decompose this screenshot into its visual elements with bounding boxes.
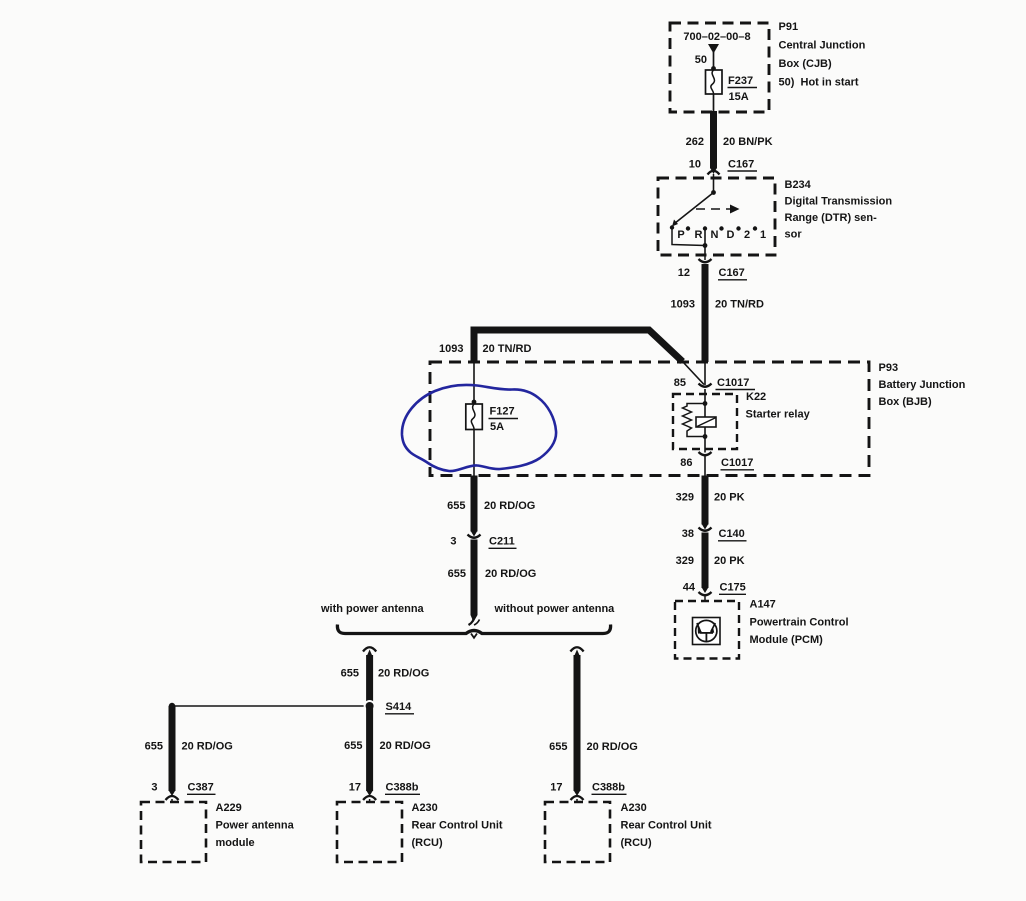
svg-text:C175: C175: [720, 582, 746, 594]
svg-text:Rear Control Unit: Rear Control Unit: [621, 820, 712, 832]
option label without power antenna: [494, 603, 616, 615]
connector symbol C388b middle: [363, 796, 376, 802]
wire left branch 655: [169, 706, 175, 796]
svg-text:R: R: [695, 229, 703, 241]
svg-text:44: 44: [683, 582, 696, 594]
wire labels 1093 / 20 TN/RD left: [439, 343, 531, 355]
svg-text:3: 3: [450, 536, 456, 548]
connector C211 label: [489, 536, 517, 549]
svg-text:17: 17: [550, 782, 562, 794]
node dot left splice end: [169, 703, 175, 709]
A230 text labels right: [621, 802, 712, 849]
component box A230 Rear Control Unit right: [545, 802, 610, 862]
gear position letters P R N D 2 1: [677, 229, 766, 241]
svg-text:655: 655: [447, 500, 465, 512]
annotation blue circle around F127: [402, 385, 556, 471]
pin 12 label: [678, 267, 690, 279]
wire fuse to BJB bottom: [473, 430, 475, 476]
svg-text:sor: sor: [785, 229, 803, 241]
svg-text:Starter relay: Starter relay: [746, 409, 811, 421]
pin 17 label right: [550, 782, 562, 794]
svg-text:Box (CJB): Box (CJB): [779, 58, 833, 70]
svg-text:85: 85: [674, 377, 686, 389]
component box A147 PCM: [675, 601, 739, 659]
value label F127 / 5A: [489, 406, 519, 434]
pin 86 label: [680, 457, 692, 469]
wire entry into B234: [713, 178, 715, 193]
node junction dot at fuse top: [711, 66, 716, 71]
svg-text:Box (BJB): Box (BJB): [879, 396, 933, 408]
svg-text:A230: A230: [621, 802, 647, 814]
svg-text:module: module: [216, 837, 255, 849]
wire 329 20 PK upper: [702, 476, 708, 530]
pin 3 label: [450, 536, 456, 548]
svg-text:B234: B234: [785, 179, 812, 191]
motion dashed arrow: [696, 205, 740, 214]
wire 655 to option bracket: [469, 540, 480, 626]
wire 262 20 BN/PK: [711, 111, 717, 174]
svg-text:K22: K22: [746, 391, 766, 403]
contact dot D-2: [736, 226, 740, 230]
contact dot 2-1: [753, 226, 757, 230]
connector C388b label middle: [385, 782, 420, 795]
svg-text:20 TN/RD: 20 TN/RD: [715, 299, 764, 311]
fuse F237 15A: [706, 70, 723, 94]
component box A229 Power antenna module: [141, 802, 206, 862]
svg-text:C167: C167: [728, 158, 754, 170]
wire 329 20 PK lower: [702, 533, 708, 594]
PCM icon: [693, 618, 721, 645]
svg-text:F237: F237: [728, 75, 753, 87]
svg-text:20 RD/OG: 20 RD/OG: [378, 668, 429, 680]
A229 text labels: [216, 802, 295, 849]
relay coil winding: [683, 404, 706, 437]
svg-text:329: 329: [676, 492, 694, 504]
S414 label: [385, 701, 414, 714]
svg-text:(RCU): (RCU): [412, 837, 443, 849]
B234 text labels: [785, 179, 893, 241]
connector C388b label right: [592, 782, 627, 795]
K22 labels: [746, 391, 811, 421]
svg-text:20 RD/OG: 20 RD/OG: [380, 740, 431, 752]
relay K22 box: [673, 394, 737, 449]
svg-text:S414: S414: [386, 701, 413, 713]
svg-text:20 RD/OG: 20 RD/OG: [182, 741, 233, 753]
splice S414: [172, 705, 370, 707]
svg-text:20 PK: 20 PK: [714, 492, 745, 504]
svg-text:655: 655: [145, 741, 163, 753]
contact dot P-R: [686, 226, 690, 230]
svg-text:1093: 1093: [671, 299, 695, 311]
svg-text:20 RD/OG: 20 RD/OG: [485, 568, 536, 580]
switch wiper arm: [672, 193, 714, 227]
node pivot dot: [711, 190, 716, 195]
node dot relay top: [703, 401, 708, 406]
svg-text:C167: C167: [719, 267, 745, 279]
wire P contact bracket: [672, 228, 705, 246]
wire labels 329 / 20 PK lower: [676, 555, 745, 567]
svg-text:Digital Transmission: Digital Transmission: [785, 196, 893, 208]
svg-text:Powertrain Control: Powertrain Control: [750, 617, 849, 629]
svg-text:P: P: [677, 229, 684, 241]
wire labels 1093 / 20 TN/RD: [671, 299, 764, 311]
wire 655 20 RD/OG below BJB: [471, 476, 477, 537]
wire middle branch upper 655: [366, 655, 373, 706]
svg-text:1: 1: [760, 229, 766, 241]
label 700-02-00-8: [683, 31, 750, 43]
svg-text:1093: 1093: [439, 343, 463, 355]
wire elbow 1093 branch to F127: [474, 330, 683, 362]
svg-text:329: 329: [676, 555, 694, 567]
connector arrow middle branch: [363, 647, 376, 656]
P91 text labels: [779, 21, 866, 89]
wire fuse to box edge: [713, 94, 715, 112]
A147 text labels: [750, 599, 849, 647]
pin 38 label: [682, 528, 694, 540]
wire thin diagonal into pin 85: [683, 362, 705, 385]
node dot on output line: [703, 243, 708, 248]
svg-text:with power antenna: with power antenna: [320, 603, 425, 615]
svg-text:20 PK: 20 PK: [714, 555, 745, 567]
svg-text:(RCU): (RCU): [621, 837, 652, 849]
P93 text labels: [879, 362, 966, 408]
pin 17 label middle: [349, 782, 361, 794]
svg-text:Range (DTR) sen-: Range (DTR) sen-: [785, 212, 878, 224]
wire labels 262 / 20 BN/PK: [686, 136, 773, 148]
wire labels 329 / 20 PK: [676, 492, 745, 504]
connector C1017 label bottom: [721, 457, 755, 470]
wire labels 655 / 20 RD/OG middle upper: [341, 668, 430, 680]
value label F237 / 15A: [728, 75, 758, 103]
option bracket bus: [337, 625, 610, 638]
connector C387 label: [187, 782, 216, 795]
svg-text:Battery Junction: Battery Junction: [879, 379, 966, 391]
svg-text:655: 655: [341, 668, 359, 680]
svg-text:Power antenna: Power antenna: [216, 820, 295, 832]
svg-text:A147: A147: [750, 599, 776, 611]
svg-text:655: 655: [549, 741, 567, 753]
wire right branch 655: [574, 655, 580, 796]
node dot S414: [364, 700, 376, 712]
svg-text:20 BN/PK: 20 BN/PK: [723, 136, 773, 148]
wire labels 655 / 20 RD/OG lower: [448, 568, 537, 580]
pin 85 label: [674, 377, 686, 389]
connector C175 label: [719, 582, 746, 595]
svg-text:10: 10: [689, 158, 701, 170]
connector symbol C175: [699, 592, 712, 601]
svg-text:12: 12: [678, 267, 690, 279]
svg-text:Central Junction: Central Junction: [779, 40, 866, 52]
svg-text:Rear Control Unit: Rear Control Unit: [412, 820, 503, 832]
connector box P93 Battery Junction Box: [430, 362, 869, 476]
svg-text:17: 17: [349, 782, 361, 794]
connector C1017 label top: [716, 377, 756, 389]
svg-text:5A: 5A: [490, 421, 504, 433]
connector symbol C140: [699, 528, 712, 531]
contact dot P: [670, 225, 674, 229]
svg-text:3: 3: [151, 782, 157, 794]
connector symbol C167 top: [708, 171, 720, 178]
svg-text:P93: P93: [879, 362, 899, 374]
svg-text:2: 2: [744, 229, 750, 241]
svg-text:262: 262: [686, 136, 704, 148]
connector symbol C211: [468, 535, 481, 538]
wire labels 655 / 20 RD/OG middle lower: [344, 740, 431, 752]
connector box P91 Central Junction Box: [670, 23, 769, 112]
svg-text:20 RD/OG: 20 RD/OG: [484, 500, 535, 512]
contact dot R-N top of output line: [703, 226, 707, 230]
svg-text:C140: C140: [719, 528, 745, 540]
A230 text labels middle: [412, 802, 503, 849]
component box A230 Rear Control Unit middle: [337, 802, 402, 862]
connector symbol 86 C1017: [699, 437, 712, 476]
relay contact element: [696, 417, 716, 427]
node dot relay bottom: [703, 434, 708, 439]
svg-text:20 TN/RD: 20 TN/RD: [483, 343, 532, 355]
connector C167 label lower: [718, 267, 747, 280]
power feed arrow: [708, 44, 719, 54]
svg-text:20 RD/OG: 20 RD/OG: [587, 741, 638, 753]
svg-text:38: 38: [682, 528, 694, 540]
wire output inside B234: [704, 229, 706, 256]
wire labels 655 / 20 RD/OG right: [549, 741, 638, 753]
fuse F127 5A: [466, 404, 483, 430]
svg-text:D: D: [727, 229, 735, 241]
node dot above F127: [472, 400, 477, 405]
svg-text:86: 86: [680, 457, 692, 469]
svg-text:A230: A230: [412, 802, 438, 814]
svg-text:C388b: C388b: [592, 782, 625, 794]
option label with power antenna: [320, 603, 425, 615]
connector symbol C387: [166, 796, 179, 802]
svg-text:Module (PCM): Module (PCM): [750, 634, 824, 646]
svg-text:without power antenna: without power antenna: [494, 603, 616, 615]
connector symbol C167 bottom: [699, 255, 712, 262]
wire BJB top to fuse F127: [473, 362, 475, 404]
svg-text:C387: C387: [188, 782, 214, 794]
pin 44 label: [683, 582, 696, 594]
svg-text:C1017: C1017: [717, 377, 749, 389]
wire middle branch lower 655: [367, 706, 373, 796]
svg-text:P91: P91: [779, 21, 799, 33]
svg-text:700–02–00–8: 700–02–00–8: [683, 31, 750, 43]
wire 1093 20 TN/RD right: [702, 264, 709, 362]
pin 3 label left: [151, 782, 157, 794]
connector arrow right branch: [570, 647, 583, 656]
pin 10 label: [689, 158, 701, 170]
svg-text:655: 655: [344, 740, 362, 752]
contact dot N-D: [719, 226, 723, 230]
svg-text:50: 50: [695, 54, 707, 66]
wire feed to fuse: [713, 52, 715, 70]
pin 50 label: [695, 54, 707, 66]
wire into relay: [704, 389, 706, 437]
svg-text:F127: F127: [490, 406, 515, 418]
connector symbol 85 C1017: [699, 362, 712, 387]
svg-text:A229: A229: [216, 802, 242, 814]
svg-text:C211: C211: [489, 536, 515, 548]
svg-text:655: 655: [448, 568, 466, 580]
connector symbol C388b right: [571, 796, 584, 802]
wire labels 655 / 20 RD/OG left: [145, 741, 233, 753]
wire labels 655 / 20 RD/OG: [447, 500, 535, 512]
component box B234 DTR sensor: [658, 178, 775, 255]
svg-text:15A: 15A: [729, 91, 749, 103]
svg-text:C1017: C1017: [721, 457, 753, 469]
connector C167 label: [728, 158, 758, 171]
svg-text:N: N: [711, 229, 719, 241]
connector C140 label: [718, 528, 747, 541]
svg-text:50) Hot in start: 50) Hot in start: [779, 77, 859, 89]
svg-text:C388b: C388b: [386, 782, 419, 794]
